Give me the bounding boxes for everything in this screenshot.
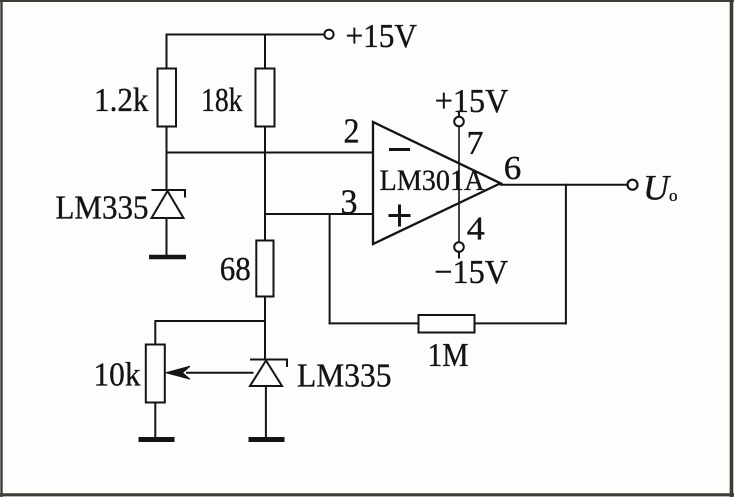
svg-text:2: 2 [344,113,360,151]
diode LM335 (upper) [152,190,187,218]
terminal +15V top [324,30,333,39]
svg-text:18k: 18k [201,82,243,119]
wire pin7 to pin4 through amp [458,126,460,242]
ground (lower LM335) [249,437,285,442]
op-amp plus input mark [389,205,411,227]
svg-text:7: 7 [467,125,484,162]
op-amp minus input mark [389,148,410,151]
terminal pin 4 [454,242,464,252]
ground (upper LM335) [149,255,186,260]
svg-text:1M: 1M [428,337,469,374]
diode LM335 (lower) [250,360,288,387]
svg-text:U: U [643,168,671,208]
wire LM335 2 bottom lead [265,386,267,437]
svg-text:+15V: +15V [346,18,418,55]
wire LM335 anode to ground [166,218,168,256]
wire output to terminal [500,184,628,186]
terminal pin 7 [454,117,464,127]
wire 1.2k bottom lead to LM335 [166,126,168,190]
svg-text:+15V: +15V [435,83,509,120]
resistor R3 68 [256,241,273,297]
wire 18k top lead [264,35,266,69]
wire node to pin 3 [265,213,373,215]
svg-text:6: 6 [504,150,522,187]
resistor R4 1M [419,315,475,333]
wire top rail +15V [167,34,325,36]
ground (pot) [139,437,175,442]
potentiometer RP 10k body [146,345,165,403]
wire pot top lead [154,320,156,345]
svg-text:68: 68 [220,251,251,288]
wire feedback right vertical [565,184,567,325]
wire feedback left vertical [329,214,331,324]
resistor R2 18k [256,69,275,127]
svg-text:10k: 10k [94,357,141,394]
svg-text:LM335: LM335 [56,190,149,227]
terminal output Uo [628,180,638,190]
wire inverting input node to pin 2 [166,152,374,154]
wire op-amp supply pin4 stub [458,252,460,259]
resistor R1 1.2k [158,69,177,127]
wire feedback bottom right [475,322,567,324]
svg-text:−15V: −15V [434,254,508,291]
wire op-amp supply pin7 stub [458,111,460,117]
svg-text:o: o [669,186,678,205]
wire 1.2k top lead [166,34,168,69]
svg-text:LM301A: LM301A [380,164,485,197]
wire 68 bottom lead [264,297,266,360]
wire feedback bottom left [329,322,419,324]
svg-text:LM335: LM335 [297,358,392,395]
svg-text:1.2k: 1.2k [94,82,149,119]
wire pot top horizontal [155,320,265,322]
wire pot bottom lead [154,403,156,439]
op-amp U1 LM301A triangle [373,122,501,244]
svg-text:4: 4 [467,211,485,248]
potentiometer wiper arrow [166,366,254,379]
wire 18k bottom to 68 top [264,126,266,241]
svg-text:3: 3 [341,184,358,222]
